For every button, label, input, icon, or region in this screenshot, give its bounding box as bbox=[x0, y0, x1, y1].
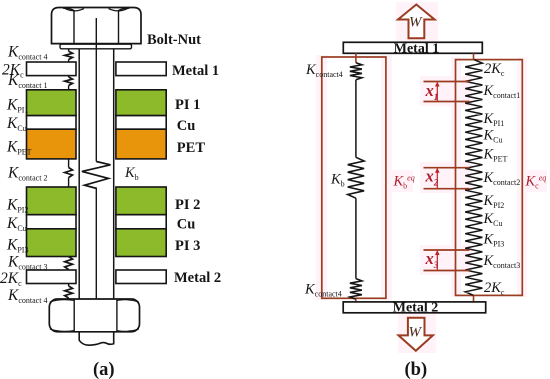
layer Metal 2 right bbox=[116, 270, 166, 284]
layer Cu right bbox=[116, 116, 166, 130]
spring 2Kc top (a) bbox=[65, 65, 73, 75]
svg-text:PET: PET bbox=[177, 140, 206, 156]
left branch stub top bbox=[355, 53, 357, 62]
spring Kcontact4 bottom (a) bbox=[65, 286, 73, 298]
spring KPI3 (a) bbox=[65, 239, 73, 250]
left red box bbox=[322, 57, 386, 298]
spring KCu2 (a) bbox=[65, 217, 73, 227]
bolt shank right line bbox=[113, 49, 115, 299]
nut bbox=[49, 299, 139, 332]
spring KPET (a) bbox=[65, 139, 73, 150]
svg-text:(a): (a) bbox=[93, 360, 115, 379]
spring 2Kc bottom (a) bbox=[65, 271, 73, 283]
dimension x3 arrow bbox=[436, 252, 438, 271]
svg-text:Metal 1: Metal 1 bbox=[394, 41, 439, 56]
svg-text:Metal 2: Metal 2 bbox=[393, 301, 438, 316]
right branch stub top bbox=[473, 53, 475, 59]
spring Kcontact1 (a) bbox=[65, 77, 73, 86]
layer PI 3 right bbox=[116, 229, 166, 257]
spring K contact4 bottom (b) bbox=[350, 279, 362, 300]
layer Metal 1 right bbox=[116, 62, 166, 76]
left branch wire lower bbox=[355, 198, 357, 278]
svg-text:PI 2: PI 2 bbox=[175, 197, 200, 213]
layer Cu2 right bbox=[116, 215, 166, 229]
right branch stub bottom bbox=[473, 295, 475, 302]
spring Kcontact2 (a) bbox=[65, 168, 73, 178]
spring Kb (a) bbox=[82, 162, 111, 189]
layer PI 3 left bbox=[27, 229, 77, 257]
bolt shank left line bbox=[78, 49, 80, 299]
Metal 1 bar bbox=[343, 42, 482, 53]
layer PI 1 right bbox=[116, 90, 166, 116]
bolt head bbox=[52, 8, 142, 44]
dimension x2 lines bbox=[424, 167, 470, 169]
svg-text:Bolt-Nut: Bolt-Nut bbox=[147, 32, 201, 48]
artifact halo bands bbox=[316, 2, 547, 353]
left branch wire upper bbox=[355, 80, 357, 158]
svg-text:PI 1: PI 1 bbox=[175, 97, 200, 113]
dimension x1 arrow bbox=[436, 83, 438, 102]
bolt end break bbox=[79, 332, 114, 345]
spring KPI2 (a) bbox=[65, 196, 73, 206]
W up arrow bbox=[398, 5, 435, 39]
dimension x1 lines bbox=[424, 81, 470, 83]
spring KPI1 (a) bbox=[65, 97, 73, 109]
layer PI 1 left bbox=[27, 90, 77, 116]
washer under head bbox=[60, 44, 132, 49]
right red box bbox=[456, 60, 523, 296]
svg-text:W: W bbox=[409, 15, 423, 31]
W down arrow bbox=[399, 318, 433, 351]
svg-text:Metal 2: Metal 2 bbox=[174, 270, 221, 286]
layer PET left bbox=[27, 129, 77, 159]
spring Kcontact3 (a) bbox=[65, 257, 73, 270]
layer Metal 2 left bbox=[27, 270, 77, 284]
svg-text:PI 3: PI 3 bbox=[175, 238, 200, 254]
spring K contact4 top (b) bbox=[350, 63, 362, 80]
layer Cu2 left bbox=[27, 215, 77, 229]
bolt center line upper bbox=[95, 18, 97, 162]
svg-text:Cu: Cu bbox=[177, 217, 196, 233]
layer Metal 1 left bbox=[27, 62, 77, 76]
spring Kcontact4 top (a) bbox=[65, 51, 73, 59]
svg-text:Cu: Cu bbox=[177, 118, 196, 134]
svg-text:W: W bbox=[409, 325, 423, 341]
bolt center line lower bbox=[95, 189, 97, 320]
layer Cu left bbox=[27, 116, 77, 130]
layer PET right bbox=[116, 129, 166, 159]
spring KCu1 (a) bbox=[65, 118, 73, 127]
layer PI 2 right bbox=[116, 187, 166, 215]
layer PI 2 left bbox=[27, 187, 77, 215]
right spring chain (b) bbox=[465, 60, 482, 296]
dimension x3 lines bbox=[424, 249, 470, 251]
svg-text:Metal 1: Metal 1 bbox=[172, 63, 219, 79]
spring line (a) bbox=[68, 49, 70, 299]
dimension x2 arrow bbox=[436, 169, 438, 189]
spring K b (b) bbox=[348, 157, 364, 198]
Metal 2 bar bbox=[343, 302, 486, 313]
svg-text:(b): (b) bbox=[405, 360, 428, 379]
left branch stub bottom bbox=[355, 299, 357, 302]
